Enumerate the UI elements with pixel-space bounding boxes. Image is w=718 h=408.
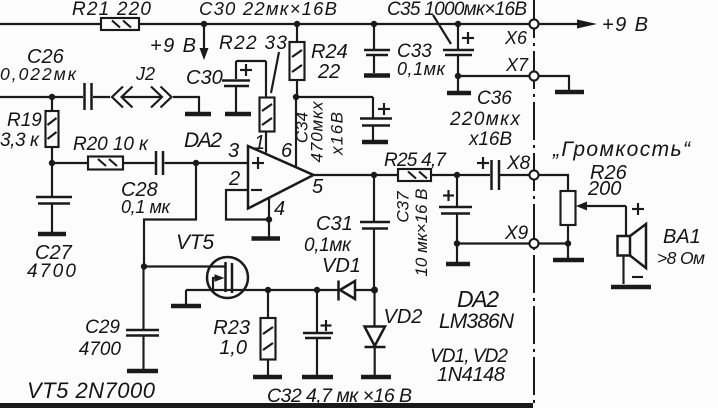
node junction rail-C33 <box>371 21 377 27</box>
wire R24 node to C34 <box>296 96 373 98</box>
svg-text:1,0: 1,0 <box>219 337 247 359</box>
svg-text:„Громкость“: „Громкость“ <box>552 138 691 161</box>
terminal X9 <box>504 223 539 248</box>
wire output pin5 row <box>314 174 399 176</box>
capacitor C32 <box>303 290 333 375</box>
capacitor C35 <box>443 24 474 76</box>
svg-text:22: 22 <box>317 61 340 83</box>
svg-text:10 мк×16 В: 10 мк×16 В <box>412 189 431 277</box>
diode VD2 <box>365 290 423 375</box>
node junction source-C32 <box>314 287 320 293</box>
wire R25 to C36 <box>431 174 490 176</box>
svg-text:C29: C29 <box>85 317 120 338</box>
ground C33 <box>364 73 390 78</box>
terminal X7 <box>505 55 539 81</box>
terminal X8 <box>506 153 539 180</box>
svg-text:5: 5 <box>312 176 324 198</box>
ground R23 <box>253 375 282 380</box>
wire gate <box>144 265 225 267</box>
ground BA1 <box>611 285 651 290</box>
svg-text:VD2: VD2 <box>384 306 423 328</box>
wire leader R22 <box>271 52 279 93</box>
capacitor C37 <box>394 175 473 277</box>
ground J2 <box>173 97 211 114</box>
wire boundary dash-dot line <box>533 0 535 408</box>
node junction R24-C34-pin6 <box>293 94 299 100</box>
svg-text:C31: C31 <box>316 213 353 235</box>
capacitor C26 <box>0 46 110 110</box>
ground C32 <box>302 375 333 380</box>
svg-text:470мкх: 470мкх <box>308 101 327 163</box>
svg-text:3,3 к: 3,3 к <box>0 130 40 151</box>
terminal X6 <box>504 20 539 49</box>
svg-text:0,1мк: 0,1мк <box>397 59 447 79</box>
resistor R20 <box>73 134 149 170</box>
node junction VD1-VD2-C31 <box>371 287 378 294</box>
svg-text:+9 В: +9 В <box>150 35 196 57</box>
wire top +9V rail right of R21 <box>139 23 530 25</box>
svg-text:VT5 2N7000: VT5 2N7000 <box>27 378 156 403</box>
svg-text:LM386N: LM386N <box>439 310 515 333</box>
wire X9 to R26 <box>539 242 569 244</box>
node junction gate-C29 <box>141 263 147 269</box>
wire R20 to C28 <box>123 162 155 164</box>
resistor R23 <box>213 290 275 375</box>
ground C34 <box>362 140 388 145</box>
transistor VT5 2N7000 <box>186 257 339 298</box>
svg-text:C36: C36 <box>477 88 512 109</box>
resistor R19 <box>0 97 59 163</box>
svg-text:X6: X6 <box>504 28 528 48</box>
svg-text:>8 Ом: >8 Ом <box>657 248 705 268</box>
svg-text:R24: R24 <box>311 41 348 63</box>
svg-text:1N4148: 1N4148 <box>437 364 505 386</box>
speaker BA1 <box>618 203 706 284</box>
svg-text:C30 22мк×16В: C30 22мк×16В <box>199 0 337 19</box>
svg-text:DA2: DA2 <box>184 129 222 152</box>
svg-text:VT5: VT5 <box>176 231 214 254</box>
wire X9 row <box>457 242 530 244</box>
node junction pin3-gate <box>193 160 199 166</box>
op-amp DA2 triangle <box>248 146 314 209</box>
node junction out-C31 <box>371 172 377 178</box>
svg-text:4700: 4700 <box>79 339 122 360</box>
ground C27 <box>38 232 66 237</box>
svg-text:4700: 4700 <box>27 261 76 282</box>
label C36 value <box>449 88 522 150</box>
svg-text:X8: X8 <box>506 153 531 174</box>
bottom page rule <box>0 403 533 408</box>
svg-text:C37: C37 <box>394 191 413 223</box>
svg-text:R19: R19 <box>7 110 42 131</box>
svg-text:х16В: х16В <box>328 112 347 156</box>
svg-text:C30: C30 <box>186 67 223 89</box>
svg-text:R20 10 к: R20 10 к <box>73 134 149 155</box>
terminal X9 circle overlay <box>530 239 539 248</box>
ground VT5 source <box>171 290 201 306</box>
terminal X6 circle overlay <box>530 20 539 29</box>
svg-text:DA2: DA2 <box>457 286 499 312</box>
wire leader C35 <box>433 15 451 44</box>
wire pin6 <box>295 97 297 168</box>
node junction source-R23 <box>265 287 271 293</box>
wire X7 row <box>458 75 530 77</box>
svg-text:0,1 мк: 0,1 мк <box>121 197 172 217</box>
svg-text:4: 4 <box>274 198 285 220</box>
resistor R24 <box>290 24 348 97</box>
node junction rail-R24 <box>294 21 300 27</box>
wire pin2 feedback loop <box>226 190 269 220</box>
wire top +9V rail left <box>0 23 101 25</box>
connector J2 <box>112 64 172 108</box>
svg-text:R25 4,7: R25 4,7 <box>384 150 447 171</box>
svg-text:1: 1 <box>254 132 265 154</box>
capacitor C33 <box>364 24 447 79</box>
capacitor C30 <box>186 61 252 112</box>
wire pin4 <box>268 198 270 237</box>
svg-text:200: 200 <box>587 178 621 200</box>
svg-text:х16В: х16В <box>468 129 512 150</box>
svg-text:3: 3 <box>228 140 239 162</box>
node junction C35-X7 <box>455 73 461 79</box>
svg-text:6: 6 <box>281 140 293 162</box>
resistor R22 <box>260 61 275 153</box>
wire gate node vertical from pin3 <box>144 163 196 267</box>
svg-text:R22 33: R22 33 <box>219 33 287 54</box>
node junction rail-C30arrow <box>201 21 207 27</box>
node junction C37-X9 <box>454 240 460 246</box>
svg-text:X7: X7 <box>505 55 529 75</box>
svg-text:BA1: BA1 <box>663 226 701 248</box>
label DA2 LM386N <box>439 286 515 333</box>
terminal X8 circle overlay <box>530 171 539 180</box>
wire R19 to R20 <box>52 162 88 164</box>
ground C29 <box>127 369 158 374</box>
svg-text:2: 2 <box>228 168 240 190</box>
capacitor C29 <box>79 267 159 370</box>
ground X7 external <box>539 76 585 92</box>
svg-text:X9: X9 <box>504 223 529 244</box>
ground C37 <box>446 244 470 265</box>
node junction R25-C37 <box>454 172 460 178</box>
ground VD2 <box>361 375 391 380</box>
resistor R21 <box>72 0 151 30</box>
ground pin4 <box>252 236 281 241</box>
node junction input-R19 <box>49 94 55 100</box>
svg-text:R21 220: R21 220 <box>72 0 151 20</box>
capacitor C31 <box>304 175 390 290</box>
svg-text:220мкх: 220мкх <box>449 109 522 130</box>
ground C30 <box>225 112 251 117</box>
terminal X7 circle overlay <box>530 72 539 81</box>
capacitor C28 <box>121 151 172 217</box>
node junction R19-R20 <box>49 160 55 166</box>
svg-text:R23: R23 <box>213 317 250 339</box>
power +9V down arrow <box>150 24 209 60</box>
svg-text:VD1: VD1 <box>322 255 361 277</box>
wire C30-R22 top node <box>236 60 266 62</box>
node junction rail-C35 <box>455 21 461 27</box>
svg-text:0,022мк: 0,022мк <box>0 64 77 84</box>
potentiometer R26 <box>539 162 628 244</box>
wire C28 to pin3 <box>165 162 249 164</box>
svg-text:+9 В: +9 В <box>602 14 648 36</box>
wire input left <box>0 96 83 98</box>
wire +9V output arrow <box>539 14 649 36</box>
capacitor C27 <box>27 163 76 282</box>
svg-text:C35 1000мк×16В: C35 1000мк×16В <box>387 0 527 20</box>
ground C35 <box>447 76 471 93</box>
node junction R26-X9 <box>565 240 571 246</box>
ground R26 <box>553 244 584 261</box>
node junction pin2-pin4 <box>266 216 272 222</box>
label VD1 VD2 1N4148 <box>430 346 508 386</box>
diode VD1 <box>322 255 375 301</box>
capacitor C36 coupling <box>477 157 530 190</box>
svg-text:J2: J2 <box>135 64 155 84</box>
svg-text:0,1мк: 0,1мк <box>304 235 352 256</box>
resistor R25 <box>384 150 447 181</box>
capacitor C34 <box>293 97 393 163</box>
